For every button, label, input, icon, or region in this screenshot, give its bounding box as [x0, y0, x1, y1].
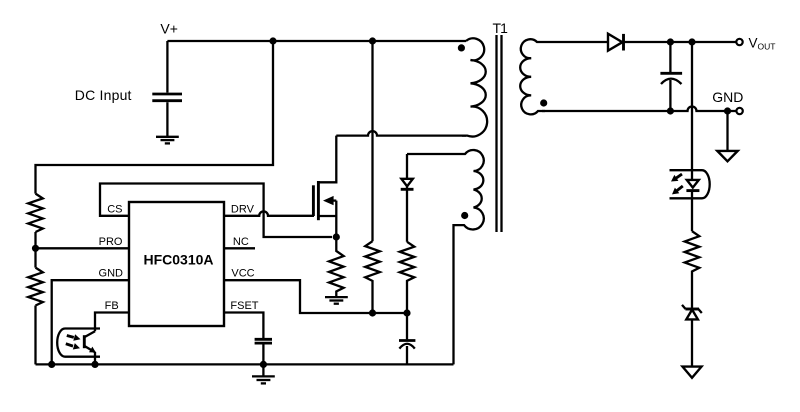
- wire VCC pin to VCC node: [224, 280, 407, 313]
- capacitor C2 (FSET): [255, 339, 272, 364]
- terminal VOUT: [736, 39, 742, 45]
- junction dot PRO node: [32, 245, 39, 252]
- svg-text:T1: T1: [493, 20, 509, 36]
- resistor R5 (VCC): [400, 242, 415, 313]
- junction dot GND terminal: [724, 107, 731, 114]
- wire GND drop: [726, 111, 728, 151]
- T1 aux phase dot: [461, 212, 468, 219]
- wire CS pin to MOSFET source node: [100, 184, 332, 238]
- wire R1 to node PRO: [34, 232, 36, 268]
- wire LED to R6: [691, 191, 693, 232]
- svg-text:GND: GND: [99, 268, 124, 280]
- opto emitted light arrow 2: [672, 186, 683, 194]
- T1 core: [497, 35, 502, 232]
- wire VOUT sense drop: [691, 42, 693, 180]
- wire FB pin to optocoupler collector: [95, 313, 129, 332]
- wire R2 to ground rail: [34, 306, 36, 365]
- capacitor C3 (VCC, polarized): [399, 313, 415, 364]
- resistor R3 (current sense): [329, 237, 344, 297]
- wire startup resistor feed (V+ down): [371, 41, 373, 241]
- svg-text:PRO: PRO: [99, 236, 123, 248]
- wire V+ riser: [166, 41, 168, 93]
- terminal GND: [736, 108, 742, 114]
- wire FSET pin to C2: [224, 313, 263, 339]
- IC U1 HFC0310A: [129, 202, 224, 326]
- opto incoming light arrow 2: [66, 343, 80, 349]
- svg-text:CS: CS: [107, 203, 122, 215]
- junction dot opto emitter: [91, 361, 98, 368]
- ground triangle (zener return): [683, 367, 702, 378]
- optocoupler U2 LED outline: [670, 170, 710, 198]
- svg-text:DC Input: DC Input: [75, 87, 132, 103]
- svg-text:HFC0310A: HFC0310A: [143, 251, 213, 267]
- svg-text:VCC: VCC: [231, 268, 254, 280]
- resistor R4 (startup): [365, 241, 380, 313]
- ground triangle (secondary GND): [717, 151, 737, 161]
- ground (below C1): [156, 137, 179, 144]
- T1 primary phase dot: [458, 44, 465, 51]
- transistor Q2 (opto phototransistor): [84, 331, 96, 364]
- T1 secondary phase dot: [540, 99, 547, 106]
- wire DRV pin to gate (hop over CS riser): [224, 211, 314, 215]
- wire NC stub: [224, 247, 255, 249]
- wire top rail V+: [167, 40, 466, 42]
- svg-text:V+: V+: [160, 20, 178, 36]
- junction dot VCC node A: [369, 309, 376, 316]
- wire D1 to VOUT: [624, 41, 737, 43]
- ground (below R3): [325, 297, 348, 304]
- resistor R6: [685, 231, 700, 308]
- junction dot FSET ground: [260, 361, 267, 368]
- wire PRO pin: [36, 247, 130, 249]
- junction dot top rail B: [369, 37, 376, 44]
- svg-text:FSET: FSET: [230, 300, 258, 312]
- diode D2 (aux rectifier): [401, 154, 414, 242]
- wire secondary return with hop (GND): [542, 107, 736, 112]
- svg-text:DRV: DRV: [231, 203, 255, 215]
- zener diode D3: [682, 305, 702, 367]
- capacitor C4 (output, polarized): [660, 42, 682, 111]
- junction dot GND rail: [48, 361, 55, 368]
- junction dot VCC node B: [403, 309, 410, 316]
- T1 aux winding: [407, 150, 484, 364]
- junction dot output cap bottom: [667, 107, 674, 114]
- opto incoming light arrow 1: [67, 334, 81, 341]
- ground (below rail at FSET): [252, 364, 275, 383]
- resistor R1: [28, 194, 43, 232]
- capacitor C1 (DC input): [152, 94, 182, 137]
- diode D1 (output rectifier): [608, 34, 624, 51]
- wire ground rail: [36, 363, 454, 365]
- svg-text:FB: FB: [105, 300, 119, 312]
- junction dot VOUT sense: [688, 38, 695, 45]
- wire V+ to bias chain: [36, 41, 274, 194]
- optocoupler U2 phototransistor outline: [57, 329, 100, 357]
- resistor R2: [28, 268, 43, 306]
- junction dot MOSFET source/CS: [333, 233, 340, 240]
- diode D4 (opto LED): [686, 180, 699, 191]
- T1 primary winding: [462, 38, 487, 136]
- svg-text:NC: NC: [233, 236, 249, 248]
- junction dot output cap top: [667, 38, 674, 45]
- junction dot top rail A: [269, 37, 276, 44]
- wire primary return with hop (drain to T1): [336, 131, 466, 136]
- wire GND pin to ground rail: [52, 280, 129, 364]
- T1 secondary winding: [520, 39, 608, 114]
- opto emitted light arrow 1: [671, 174, 682, 181]
- transistor Q1 MOSFET: [313, 136, 336, 237]
- svg-text:GND: GND: [712, 89, 743, 105]
